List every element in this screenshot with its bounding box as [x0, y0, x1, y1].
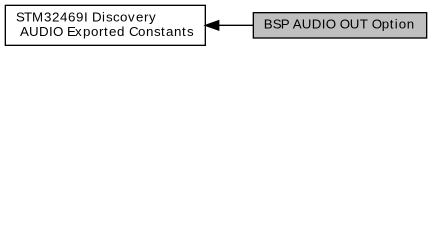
svg-text:AUDIO Exported Constants: AUDIO Exported Constants — [20, 24, 194, 39]
svg-text:BSP AUDIO OUT Option: BSP AUDIO OUT Option — [264, 17, 414, 32]
